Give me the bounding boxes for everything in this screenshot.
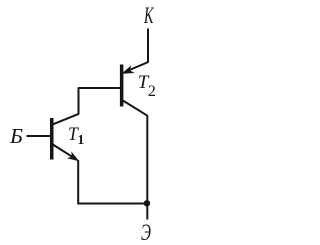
wire: T2 collector vertical drop to junction <box>146 115 148 203</box>
wire: T1 emitter vertical drop <box>77 160 79 204</box>
label K (collector terminal) <box>144 4 153 27</box>
label T1 subscript 1 <box>78 133 85 147</box>
wire: T1 collector diagonal to T1 bar <box>52 114 79 125</box>
wire: T2 emitter diagonal from K lead down-left to T2 bar <box>126 62 148 71</box>
wire: T2 base horizontal to node between transistors <box>79 87 121 89</box>
label T2 <box>138 73 149 92</box>
wire: T2 collector diagonal from bar <box>123 101 148 116</box>
junction node dot <box>144 200 150 206</box>
wire: T1 base lead from B terminal <box>27 135 51 137</box>
transistor T2 base bar <box>120 65 124 107</box>
wire: T1 collector vertical rise <box>78 87 80 114</box>
wire: bottom horizontal to junction <box>77 203 147 205</box>
label E (emitter terminal) <box>141 221 151 244</box>
wire: emitter terminal stub below junction <box>146 204 148 220</box>
transistor T1 base bar <box>50 118 54 160</box>
wire: collector lead from K terminal, vertical <box>147 29 149 63</box>
label T2 subscript 2 <box>148 84 156 100</box>
label T1 <box>68 125 78 144</box>
T2 emitter arrowhead pointing into bar (PNP) <box>122 65 135 74</box>
wire: T1 emitter diagonal (NPN) <box>53 145 75 159</box>
T1 emitter arrowhead pointing away from bar <box>67 151 79 161</box>
label B (base terminal) <box>10 126 23 147</box>
